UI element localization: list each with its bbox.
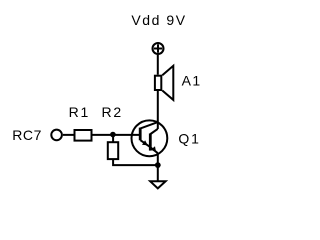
svg-text:A1: A1 (182, 72, 202, 88)
svg-text:RC7: RC7 (12, 127, 42, 143)
svg-text:R2: R2 (102, 104, 124, 120)
svg-text:Q1: Q1 (178, 130, 200, 146)
svg-text:Vdd 9V: Vdd 9V (131, 12, 186, 28)
svg-text:R1: R1 (69, 104, 91, 120)
